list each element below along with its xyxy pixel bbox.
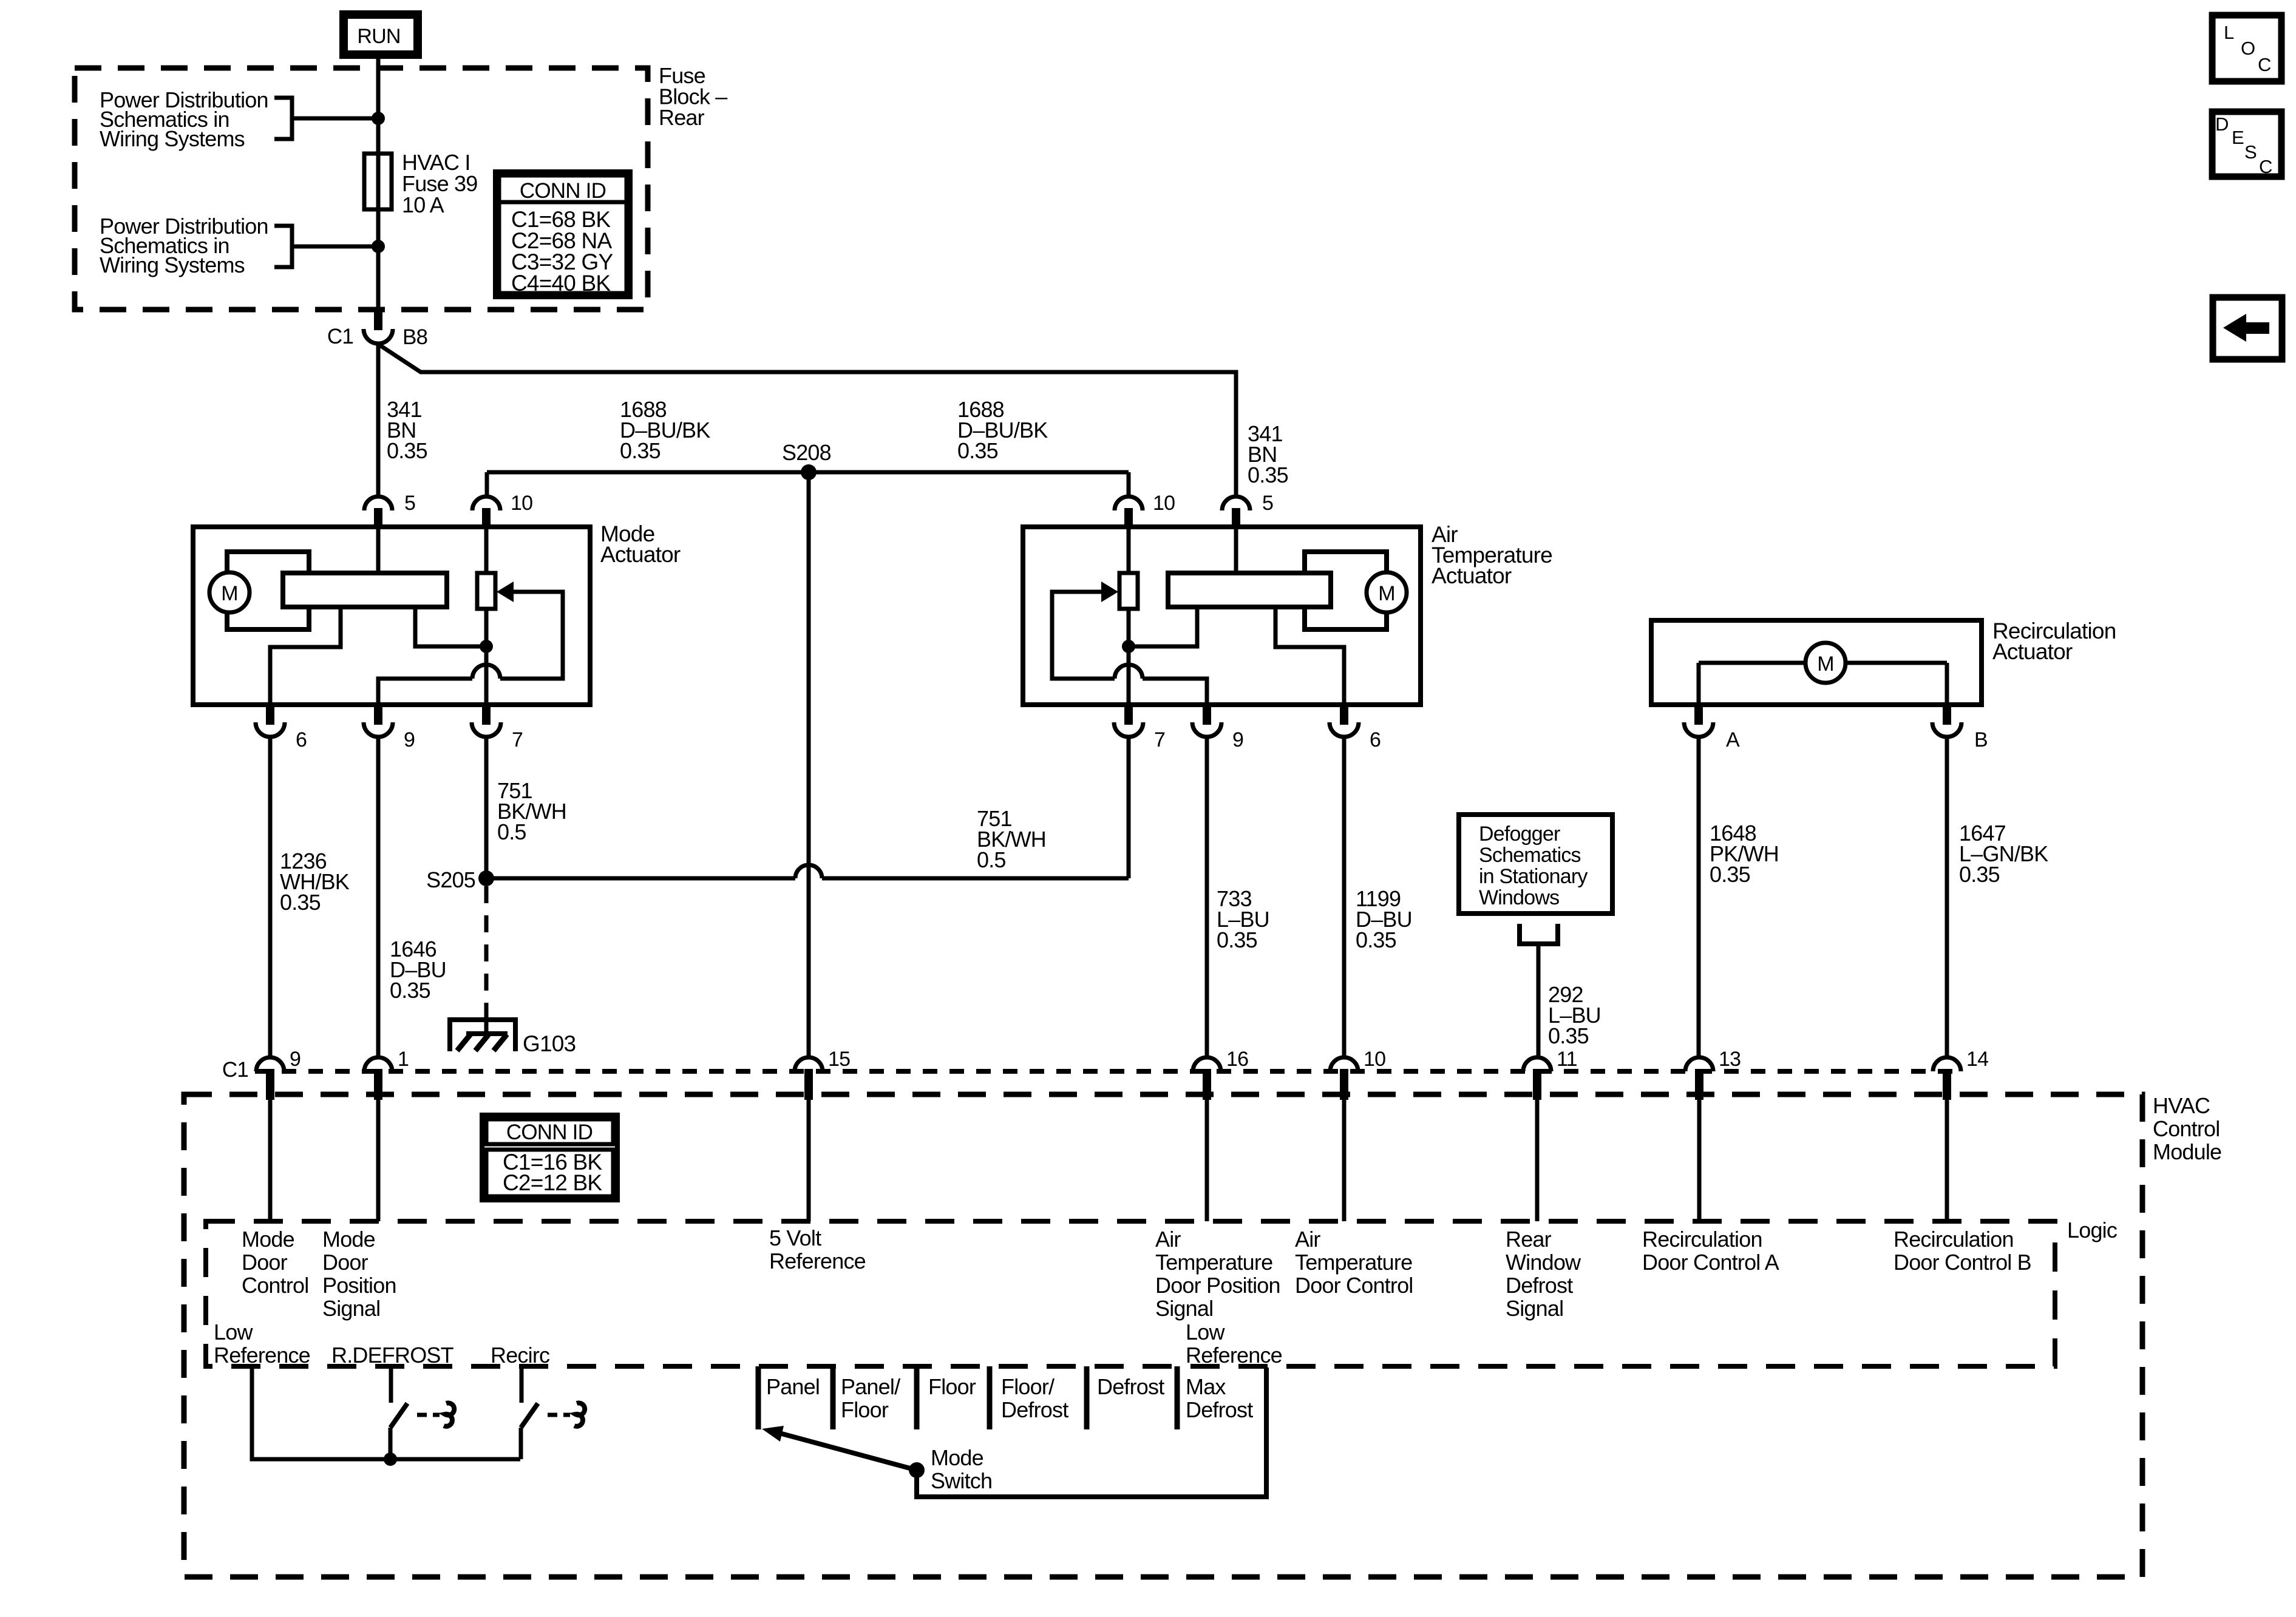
svg-text:0.35: 0.35 [387, 438, 427, 463]
svg-text:Door Position: Door Position [1155, 1273, 1280, 1298]
svg-text:CONN ID: CONN ID [520, 179, 606, 203]
svg-text:Door Control B: Door Control B [1894, 1250, 2031, 1275]
svg-text:Actuator: Actuator [1432, 563, 1512, 588]
svg-text:Mode: Mode [931, 1445, 983, 1470]
svg-text:9: 9 [1232, 728, 1243, 751]
svg-text:Low: Low [214, 1320, 253, 1344]
svg-text:O: O [2241, 38, 2255, 59]
svg-text:Floor: Floor [928, 1374, 976, 1399]
svg-text:13: 13 [1719, 1048, 1741, 1071]
svg-text:S: S [2244, 141, 2257, 163]
svg-text:Air: Air [1155, 1227, 1181, 1252]
svg-text:11: 11 [1557, 1048, 1577, 1071]
svg-text:C1: C1 [327, 325, 353, 348]
svg-text:Panel: Panel [766, 1374, 820, 1399]
svg-text:Rear: Rear [1506, 1227, 1552, 1252]
svg-text:0.35: 0.35 [957, 438, 998, 463]
svg-text:C2=12 BK: C2=12 BK [503, 1170, 602, 1195]
svg-text:Position: Position [322, 1273, 396, 1298]
svg-text:0.35: 0.35 [620, 438, 661, 463]
svg-text:Door Control: Door Control [1295, 1273, 1413, 1298]
svg-text:0.5: 0.5 [497, 819, 526, 844]
svg-text:Actuator: Actuator [1992, 639, 2073, 664]
svg-text:Temperature: Temperature [1295, 1250, 1412, 1275]
svg-text:0.35: 0.35 [390, 978, 430, 1003]
svg-text:10 A: 10 A [402, 192, 444, 217]
svg-text:7: 7 [1154, 728, 1165, 751]
svg-text:Panel/: Panel/ [841, 1374, 900, 1399]
svg-text:0.35: 0.35 [280, 890, 321, 915]
svg-text:S208: S208 [782, 440, 831, 465]
svg-text:0.35: 0.35 [1356, 927, 1396, 952]
svg-text:Door: Door [242, 1250, 288, 1275]
svg-text:9: 9 [290, 1048, 301, 1071]
svg-text:Floor: Floor [841, 1397, 889, 1422]
svg-text:Module: Module [2153, 1139, 2221, 1164]
svg-text:B8: B8 [402, 325, 427, 349]
svg-text:6: 6 [1370, 728, 1381, 751]
svg-text:Wiring Systems: Wiring Systems [100, 126, 245, 151]
svg-text:Door: Door [322, 1250, 369, 1275]
svg-text:in Stationary: in Stationary [1479, 865, 1588, 888]
svg-text:Low: Low [1186, 1320, 1225, 1344]
svg-text:Windows: Windows [1479, 886, 1559, 909]
svg-text:A: A [1726, 728, 1740, 751]
svg-text:Schematics: Schematics [1479, 844, 1581, 867]
svg-text:Air: Air [1295, 1227, 1320, 1252]
svg-text:Logic: Logic [2067, 1218, 2118, 1242]
svg-text:S205: S205 [426, 867, 475, 892]
svg-text:C: C [2259, 156, 2272, 177]
svg-text:Signal: Signal [1506, 1296, 1563, 1321]
svg-text:10: 10 [511, 492, 532, 515]
svg-text:Floor/: Floor/ [1001, 1374, 1055, 1399]
svg-text:Control: Control [242, 1273, 308, 1298]
svg-text:Signal: Signal [322, 1296, 380, 1321]
svg-text:0.35: 0.35 [1710, 862, 1750, 887]
svg-text:Actuator: Actuator [600, 542, 681, 567]
svg-text:R.DEFROST: R.DEFROST [331, 1343, 454, 1368]
svg-text:Mode: Mode [242, 1227, 294, 1252]
svg-text:Temperature: Temperature [1155, 1250, 1272, 1275]
svg-text:Defrost: Defrost [1097, 1374, 1164, 1399]
svg-text:CONN ID: CONN ID [506, 1120, 593, 1144]
svg-text:16: 16 [1226, 1048, 1248, 1071]
svg-text:Door Control A: Door Control A [1642, 1250, 1779, 1275]
svg-text:M: M [1378, 582, 1395, 605]
svg-text:10: 10 [1364, 1048, 1385, 1071]
svg-text:B: B [1974, 728, 1988, 751]
svg-text:RUN: RUN [357, 25, 400, 48]
svg-text:0.35: 0.35 [1548, 1023, 1589, 1048]
svg-text:Control: Control [2153, 1116, 2220, 1141]
svg-text:Defrost: Defrost [1506, 1273, 1573, 1298]
svg-text:6: 6 [296, 728, 307, 751]
svg-text:Defogger: Defogger [1479, 822, 1560, 846]
svg-text:14: 14 [1966, 1048, 1988, 1071]
svg-text:C: C [2258, 54, 2271, 75]
svg-text:Recirculation: Recirculation [1642, 1227, 1762, 1252]
svg-text:E: E [2232, 127, 2244, 148]
svg-text:Recirc: Recirc [491, 1343, 550, 1368]
svg-text:M: M [221, 582, 238, 605]
svg-text:G103: G103 [523, 1031, 576, 1056]
svg-text:Rear: Rear [659, 105, 705, 130]
svg-text:15: 15 [828, 1048, 850, 1071]
svg-text:5: 5 [1262, 492, 1273, 515]
svg-text:Mode: Mode [322, 1227, 375, 1252]
svg-text:C4=40 BK: C4=40 BK [511, 271, 611, 296]
svg-text:0.35: 0.35 [1217, 927, 1257, 952]
svg-text:Reference: Reference [214, 1343, 310, 1368]
svg-text:Defrost: Defrost [1001, 1397, 1068, 1422]
svg-text:0.5: 0.5 [977, 847, 1006, 872]
svg-text:5: 5 [404, 492, 415, 515]
svg-text:HVAC: HVAC [2153, 1093, 2210, 1118]
svg-text:Reference: Reference [769, 1249, 866, 1273]
svg-text:Defrost: Defrost [1186, 1397, 1253, 1422]
svg-text:7: 7 [512, 728, 523, 751]
svg-text:L: L [2224, 22, 2234, 43]
svg-text:Max: Max [1186, 1374, 1226, 1399]
svg-text:C1: C1 [222, 1058, 248, 1082]
svg-text:Switch: Switch [931, 1468, 992, 1493]
svg-text:D: D [2215, 114, 2229, 135]
svg-text:0.35: 0.35 [1959, 862, 2000, 887]
svg-text:0.35: 0.35 [1248, 463, 1288, 487]
svg-text:10: 10 [1153, 492, 1175, 515]
svg-text:Signal: Signal [1155, 1296, 1213, 1321]
svg-text:Wiring Systems: Wiring Systems [100, 253, 245, 277]
svg-text:Recirculation: Recirculation [1894, 1227, 2014, 1252]
svg-text:M: M [1817, 653, 1834, 676]
svg-text:1: 1 [398, 1048, 409, 1071]
svg-text:Window: Window [1506, 1250, 1581, 1275]
svg-text:5 Volt: 5 Volt [769, 1225, 821, 1250]
svg-text:Reference: Reference [1186, 1343, 1282, 1368]
svg-text:9: 9 [404, 728, 415, 751]
